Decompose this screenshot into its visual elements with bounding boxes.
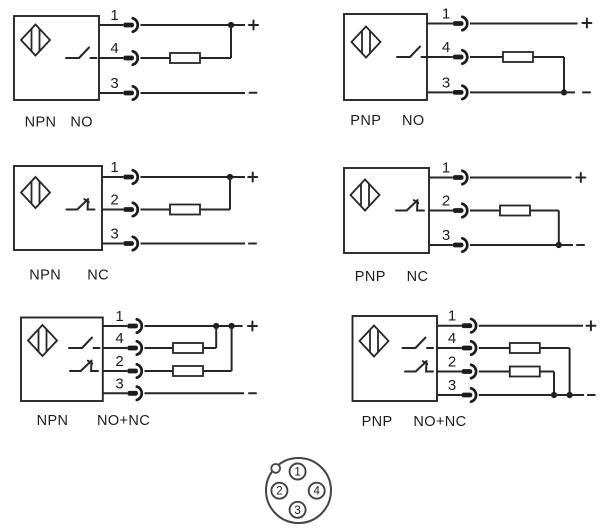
riser wire pin2 to pin1 (NPN NC): [229, 177, 231, 210]
svg-text:NPN: NPN: [37, 413, 69, 429]
junction dot pin4 (PNP NO+NC): [567, 392, 573, 398]
svg-text:NC: NC: [87, 268, 109, 284]
pin 1 connector (NPN NO+NC): [127, 319, 142, 332]
wire pin4 to resistor (NPN NO+NC): [145, 347, 174, 349]
connector keyway notch: [271, 464, 280, 473]
plus terminal (PNP NO+NC): [586, 321, 595, 330]
svg-text:1: 1: [442, 160, 450, 177]
connector face outline circle: [266, 458, 331, 523]
wire resistor to riser pin2 (PNP NO+NC): [540, 371, 554, 373]
pin 1 stub wire (PNP NO): [427, 23, 453, 25]
wire pin3 to - (PNP NO): [470, 91, 575, 93]
wire pin4 to resistor (PNP NO+NC): [479, 347, 510, 349]
wire pin2 to resistor (PNP NO+NC): [479, 371, 510, 373]
NC contact switch (NPN NC): [67, 199, 95, 209]
wire pin1 to + (NPN NC): [141, 176, 246, 178]
pin 3 connector (NPN NO): [123, 86, 138, 99]
svg-text:2: 2: [115, 353, 123, 370]
wire pin4 to resistor (NPN NO): [141, 57, 171, 59]
wire resistor to riser pin4 (PNP NO+NC): [540, 347, 570, 349]
NO contact switch (NPN NO): [66, 48, 97, 59]
svg-text:1: 1: [442, 6, 450, 23]
riser wire pin2 (NPN NO+NC): [231, 326, 233, 371]
svg-text:3: 3: [442, 227, 450, 244]
NC contact switch (NPN NO+NC): [70, 361, 98, 371]
svg-text:3: 3: [442, 74, 450, 91]
pin 2 connector (NPN NO+NC): [127, 364, 142, 377]
riser wire pin4 (PNP NO+NC): [569, 348, 571, 395]
load resistor (NPN NO): [170, 53, 200, 63]
svg-text:NO: NO: [70, 115, 93, 131]
wire pin1 to + (PNP NO+NC): [479, 325, 583, 327]
pin 1 stub wire (PNP NC): [429, 177, 453, 179]
wire pin4 to resistor (PNP NO): [470, 56, 503, 58]
NC contact switch (PNP NO+NC): [405, 361, 433, 371]
wire pin3 to - (PNP NC): [470, 244, 573, 246]
wire resistor to riser (PNP NC): [530, 210, 559, 212]
pin 3 stub wire (NPN NO): [99, 92, 123, 94]
wire pin3 to - (NPN NO): [141, 92, 246, 94]
sensor head symbol PNP NO: [352, 27, 381, 58]
junction dot (PNP NO): [561, 89, 567, 95]
svg-text:NO: NO: [402, 113, 425, 129]
junction dot A (NPN NO+NC): [213, 323, 219, 329]
minus terminal (PNP NC): [577, 244, 584, 246]
svg-text:1: 1: [110, 7, 118, 24]
pin 1 connector (PNP NO+NC): [462, 319, 477, 332]
pin 4 stub wire (PNP NO+NC): [437, 347, 462, 349]
wire pin1 to + (PNP NO): [470, 23, 578, 25]
load resistor (PNP NC): [500, 206, 530, 216]
wire pin2 to resistor (NPN NC): [141, 209, 171, 211]
pin 3 stub wire (NPN NC): [102, 243, 123, 245]
pin 4 stub wire (NPN NO): [99, 57, 123, 59]
pin 1 stub wire (NPN NO): [99, 24, 123, 26]
minus terminal (NPN NO): [250, 92, 257, 94]
svg-text:NO+NC: NO+NC: [97, 413, 150, 429]
sensor box NPN NO: [14, 16, 99, 100]
svg-text:2: 2: [448, 354, 456, 371]
plus terminal (NPN NO+NC): [248, 322, 257, 331]
pin 3 stub wire (PNP NC): [429, 244, 453, 246]
plus terminal (NPN NC): [248, 173, 257, 182]
pin 1 stub wire (PNP NO+NC): [437, 325, 462, 327]
plus terminal (PNP NC): [576, 173, 585, 182]
plus terminal (PNP NO): [582, 19, 591, 28]
riser wire pin4 (NPN NO+NC): [215, 326, 217, 348]
pin 3 connector (PNP NO): [453, 86, 468, 99]
sensor box NPN NO+NC: [21, 318, 103, 402]
load resistor (NPN NC): [170, 205, 200, 215]
pin 4 connector (PNP NO+NC): [462, 341, 477, 354]
NO contact switch (NPN NO+NC): [69, 338, 100, 349]
pin 2 connector (NPN NC): [123, 203, 138, 216]
sensor head symbol PNP NC: [351, 180, 380, 211]
sensor box PNP NO+NC: [353, 316, 438, 401]
NO contact switch (PNP NO+NC): [403, 338, 434, 349]
svg-text:4: 4: [313, 486, 320, 498]
pin 2 connector (PNP NO+NC): [462, 365, 477, 378]
load resistor pin2 (PNP NO+NC): [510, 367, 540, 377]
svg-text:3: 3: [294, 505, 300, 517]
svg-text:1: 1: [294, 467, 300, 479]
svg-text:NPN: NPN: [29, 268, 61, 284]
riser wire pin2 (PNP NO+NC): [553, 372, 555, 396]
connector pin 3 circle: [290, 502, 306, 518]
svg-text:1: 1: [448, 308, 456, 325]
sensor head symbol PNP NO+NC: [360, 326, 389, 357]
wire resistor to riser pin4 (NPN NO+NC): [203, 347, 216, 349]
NC contact switch (PNP NC): [396, 200, 424, 210]
svg-text:4: 4: [442, 39, 450, 56]
pin 1 connector (PNP NO): [453, 17, 468, 30]
wire resistor to riser pin2 (NPN NO+NC): [203, 370, 232, 372]
sensor box PNP NO: [344, 14, 427, 100]
pin 3 connector (PNP NC): [453, 238, 468, 251]
svg-text:NO+NC: NO+NC: [413, 414, 466, 430]
sensor head symbol NPN NO: [21, 25, 50, 56]
riser wire pin4 to pin1 (NPN NO): [230, 25, 232, 58]
pin 2 stub wire (NPN NC): [102, 209, 123, 211]
wire pin2 to resistor (NPN NO+NC): [145, 370, 174, 372]
pin 1 connector (NPN NC): [123, 170, 138, 183]
connector pin 2 circle: [271, 483, 287, 499]
load resistor pin4 (PNP NO+NC): [510, 343, 540, 353]
junction dot (NPN NC): [227, 174, 233, 180]
svg-text:4: 4: [448, 330, 456, 347]
pin 2 connector (PNP NC): [453, 204, 468, 217]
sensor head symbol NPN NC: [21, 177, 50, 208]
load resistor (PNP NO): [503, 52, 533, 62]
connector pin 1 circle: [290, 464, 306, 480]
pin 3 stub wire (PNP NO): [427, 91, 453, 93]
svg-text:NPN: NPN: [25, 115, 57, 131]
pin 4 connector (PNP NO): [453, 50, 468, 63]
pin 4 stub wire (NPN NO+NC): [103, 347, 127, 349]
pin 4 connector (NPN NO): [123, 51, 138, 64]
wire resistor to riser (NPN NC): [200, 209, 230, 211]
load resistor pin4 (NPN NO+NC): [173, 343, 203, 353]
sensor head symbol NPN NO+NC: [28, 325, 57, 356]
sensor box PNP NC: [344, 168, 429, 253]
pin 2 stub wire (PNP NC): [429, 210, 453, 212]
pin 3 stub wire (PNP NO+NC): [437, 394, 462, 396]
NO contact switch (PNP NO): [397, 47, 428, 58]
svg-text:4: 4: [110, 40, 118, 57]
svg-text:2: 2: [442, 193, 450, 210]
pin 3 connector (NPN NC): [123, 237, 138, 250]
svg-text:PNP: PNP: [362, 414, 393, 430]
pin 4 connector (NPN NO+NC): [127, 341, 142, 354]
junction dot (NPN NO): [228, 22, 234, 28]
pin 2 stub wire (PNP NO+NC): [437, 371, 462, 373]
wire pin1 to + (PNP NC): [470, 177, 572, 179]
pin 2 stub wire (NPN NO+NC): [103, 370, 127, 372]
minus terminal (PNP NO): [583, 91, 590, 93]
svg-text:4: 4: [115, 330, 123, 347]
pin 1 stub wire (NPN NO+NC): [103, 325, 127, 327]
riser wire pin2 to pin3 (PNP NC): [558, 211, 560, 246]
wire pin3 to - (PNP NO+NC): [479, 394, 584, 396]
junction dot B (NPN NO+NC): [229, 323, 235, 329]
minus terminal (NPN NC): [249, 243, 256, 245]
svg-text:1: 1: [110, 159, 118, 176]
pin 1 connector (NPN NO): [123, 18, 138, 31]
svg-text:2: 2: [276, 486, 282, 498]
junction dot pin2 (PNP NO+NC): [551, 392, 557, 398]
load resistor pin2 (NPN NO+NC): [173, 366, 203, 376]
pin 3 connector (NPN NO+NC): [127, 387, 142, 400]
svg-text:3: 3: [448, 377, 456, 394]
svg-text:1: 1: [115, 308, 123, 325]
svg-text:NC: NC: [407, 269, 429, 285]
pin 1 stub wire (NPN NC): [102, 176, 123, 178]
pin 4 stub wire (PNP NO): [427, 56, 453, 58]
wire pin3 to - (NPN NC): [141, 243, 246, 245]
wire pin2 to resistor (PNP NC): [470, 210, 500, 212]
svg-text:2: 2: [110, 192, 118, 209]
svg-text:PNP: PNP: [350, 113, 381, 129]
wire pin3 to - (NPN NO+NC): [145, 392, 245, 394]
connector pin 4 circle: [309, 483, 325, 499]
svg-text:PNP: PNP: [355, 269, 386, 285]
riser wire pin4 to pin3 (PNP NO): [563, 57, 565, 92]
wire pin1 to + (NPN NO): [141, 24, 246, 26]
minus terminal (NPN NO+NC): [249, 392, 256, 394]
wire pin1 to + (NPN NO+NC): [145, 325, 243, 327]
plus terminal (NPN NO): [249, 21, 258, 30]
sensor box NPN NC: [14, 166, 102, 250]
pin 3 connector (PNP NO+NC): [462, 388, 477, 401]
pin 1 connector (PNP NC): [453, 171, 468, 184]
wire resistor to riser (NPN NO): [200, 57, 231, 59]
pin 3 stub wire (NPN NO+NC): [103, 392, 127, 394]
svg-text:3: 3: [115, 375, 123, 392]
svg-text:3: 3: [110, 75, 118, 92]
wire resistor to riser (PNP NO): [533, 56, 564, 58]
svg-text:3: 3: [110, 226, 118, 243]
junction dot (PNP NC): [556, 242, 562, 248]
minus terminal (PNP NO+NC): [588, 394, 595, 396]
